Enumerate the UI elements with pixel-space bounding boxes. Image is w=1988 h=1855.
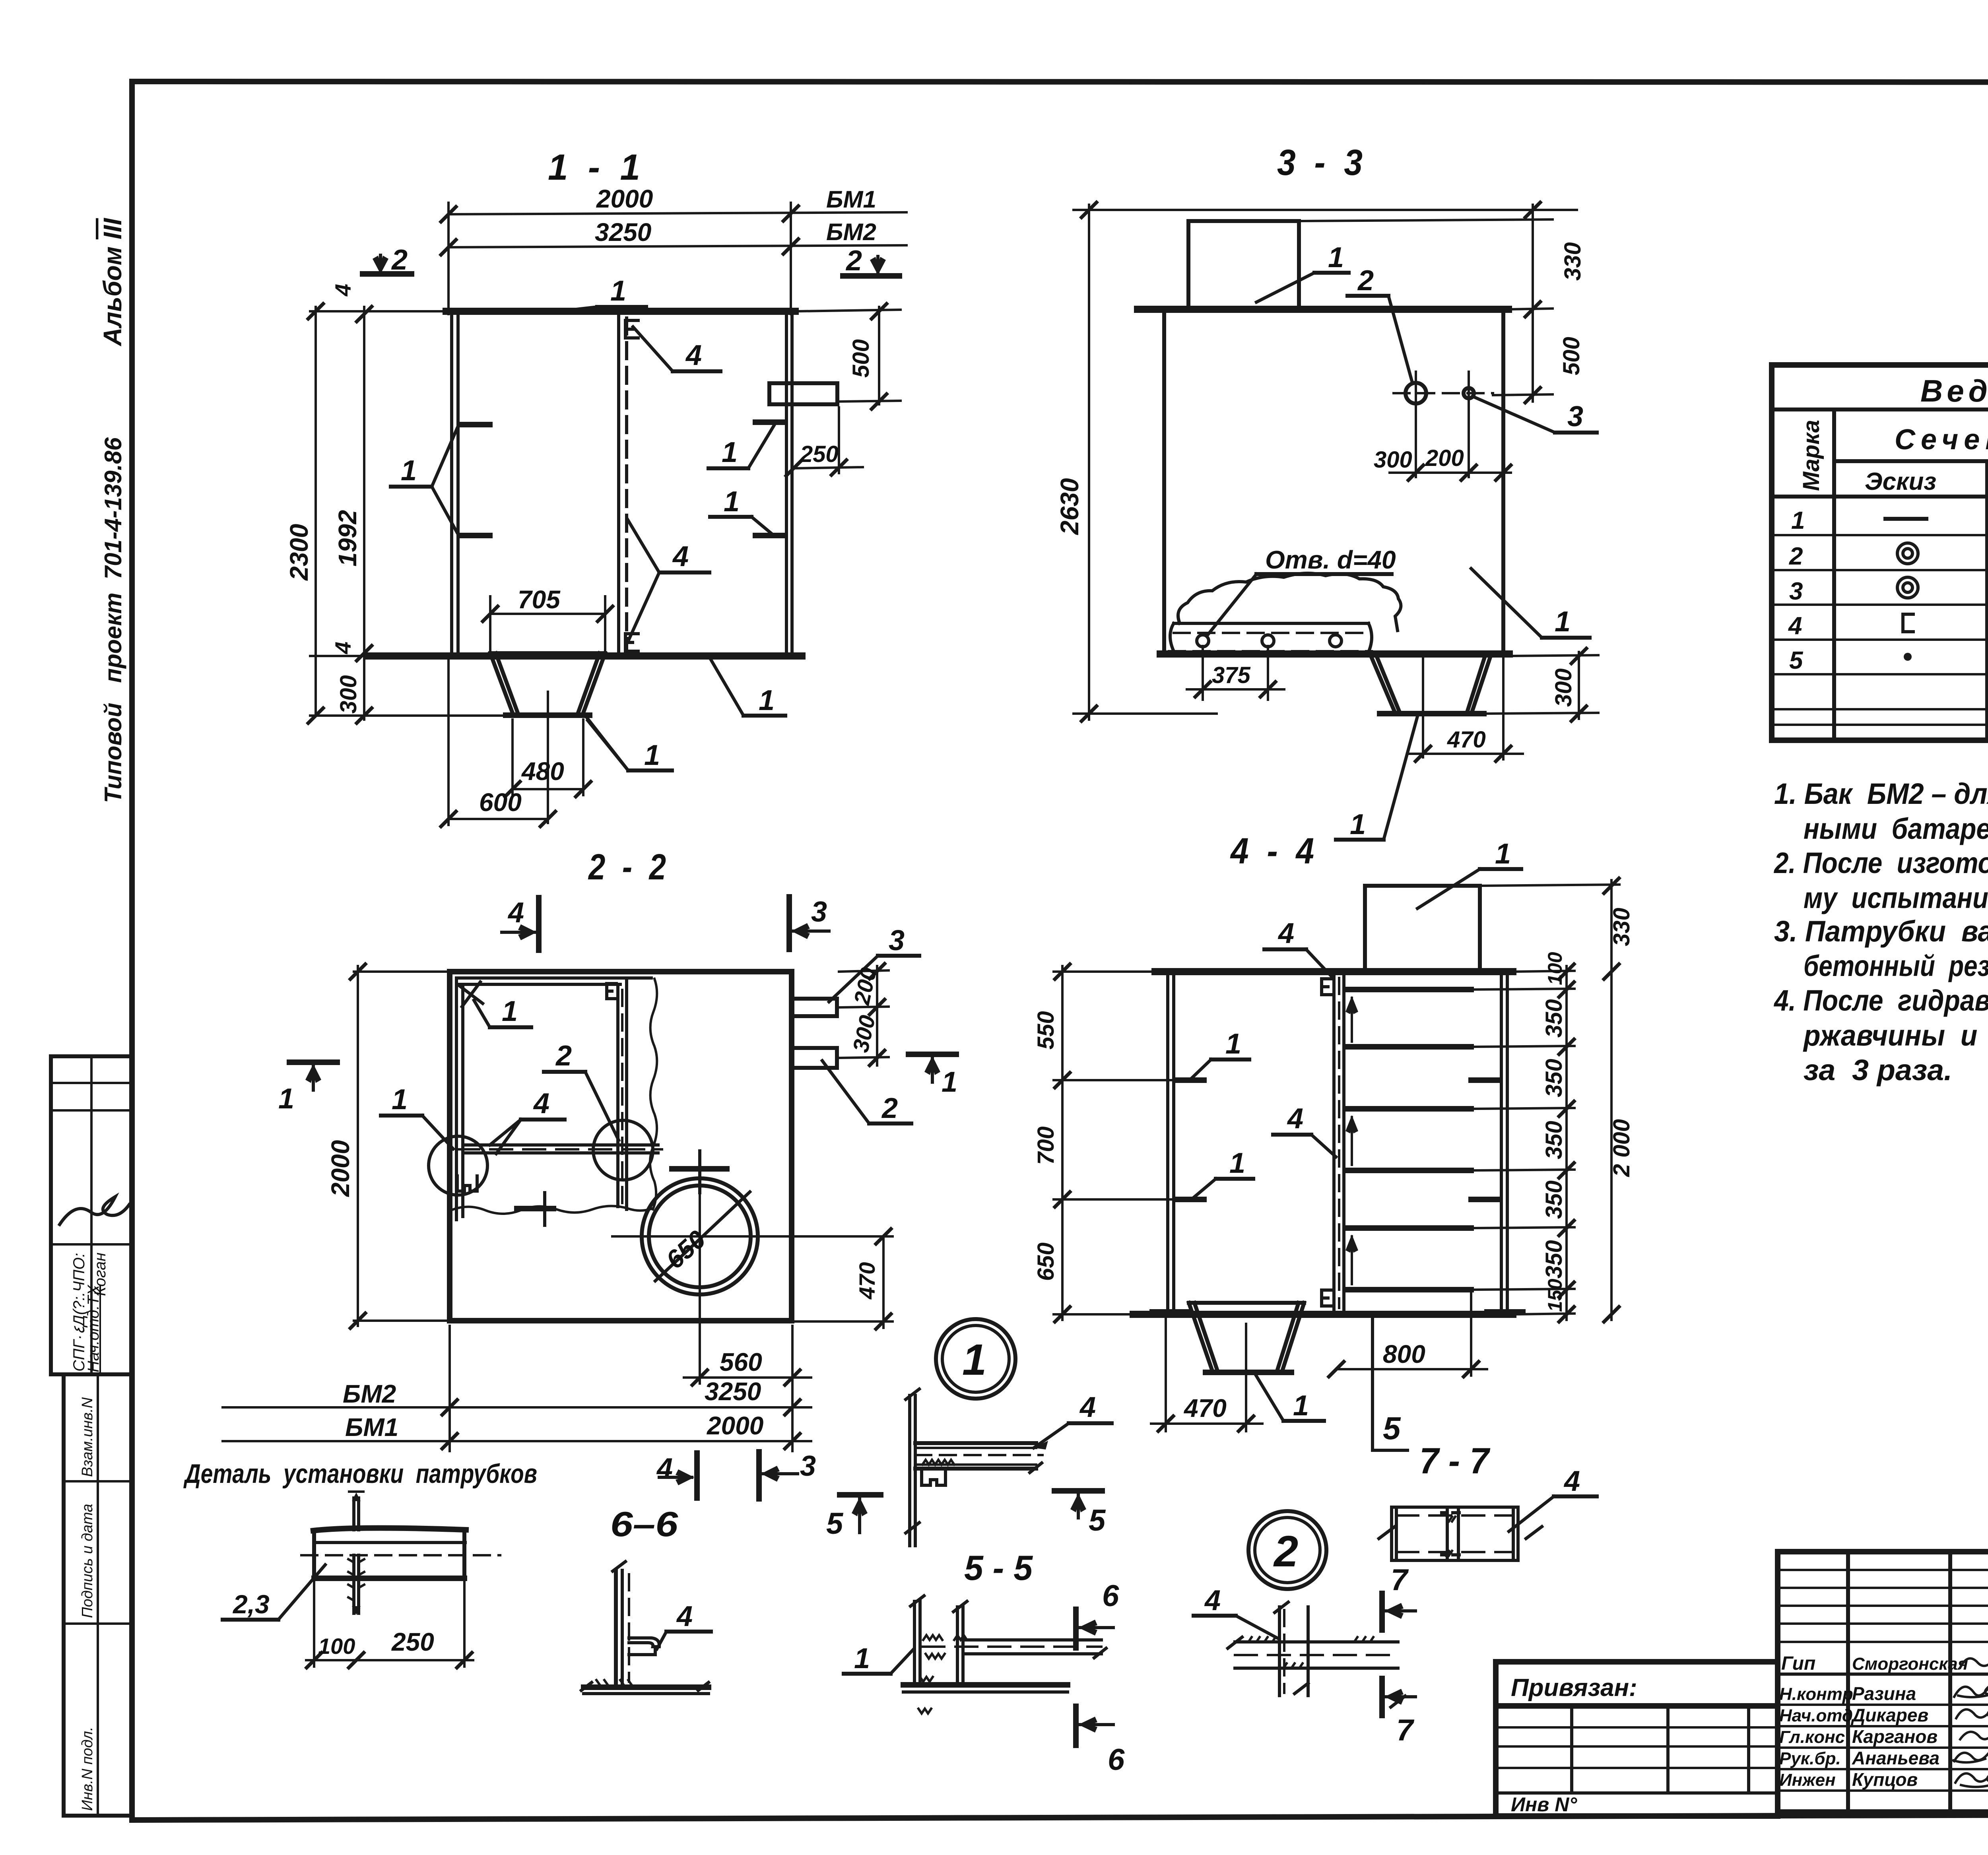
svg-text:му испытанию, течи не допу: му испытанию, течи не допускать. <box>1804 881 1988 914</box>
svg-text:1. Бак БМ2 – для варианта х: 1. Бак БМ2 – для варианта холодильника с… <box>1774 777 1988 810</box>
mound holes d=40 <box>1197 635 1209 647</box>
bottom extension line <box>1074 712 1217 715</box>
svg-text:1: 1 <box>1555 606 1571 638</box>
svg-text:300: 300 <box>1551 668 1576 707</box>
svg-text:3: 3 <box>1567 401 1583 433</box>
svg-text:600: 600 <box>479 788 522 817</box>
mound band bottom edge <box>1170 623 1372 652</box>
svg-text:330: 330 <box>1560 242 1586 281</box>
left wall footing <box>1152 1309 1190 1315</box>
svg-text:800: 800 <box>1383 1340 1425 1368</box>
dim 330 right <box>1532 205 1534 314</box>
vertical member <box>1278 1607 1281 1696</box>
svg-text:4: 4 <box>1277 918 1294 949</box>
svg-text:705: 705 <box>518 585 561 614</box>
svg-text:4: 4 <box>1788 612 1802 640</box>
svg-text:350: 350 <box>1541 1121 1567 1159</box>
5-5 base plate <box>903 1682 1068 1688</box>
svg-text:4: 4 <box>672 541 689 572</box>
dim 500 right <box>878 307 880 404</box>
bracket weld teeth <box>922 1460 954 1465</box>
svg-text:Инв N°: Инв N° <box>1511 1793 1577 1816</box>
right wall tab lower <box>755 533 785 538</box>
svg-text:Гл.конс: Гл.конс <box>1779 1727 1845 1747</box>
svg-text:Альбом III: Альбом III <box>98 218 127 347</box>
detail circle callout left <box>429 1136 487 1195</box>
partition top clip <box>625 320 638 338</box>
svg-text:7 - 7: 7 - 7 <box>1419 1441 1491 1481</box>
header texts <box>1798 420 1824 491</box>
section mark 1 right <box>909 1052 956 1057</box>
ladder rungs <box>1348 987 1471 992</box>
svg-text:500: 500 <box>848 339 874 378</box>
mound dashed lower <box>1169 650 1372 652</box>
funnel 1-1 bottom plate <box>506 712 590 718</box>
svg-text:470: 470 <box>1183 1394 1227 1422</box>
funnel support bottom plate <box>1380 711 1484 716</box>
svg-text:4: 4 <box>533 1088 549 1120</box>
svg-text:2: 2 <box>881 1092 898 1124</box>
tank 3-3 right wall <box>1501 313 1505 654</box>
svg-text:ржавчины и окрасить внутри: ржавчины и окрасить внутри эмалью ХС717Т… <box>1803 1019 1988 1052</box>
6-6 weld ticks <box>596 1680 632 1686</box>
svg-text:1: 1 <box>759 685 775 716</box>
svg-text:ными батареями.: ными батареями. <box>1804 812 1988 845</box>
left margin rotated label: Альбом III <box>98 218 127 347</box>
funnel support left leg <box>1371 656 1400 712</box>
svg-text:480: 480 <box>521 757 564 786</box>
svg-text:Карганов: Карганов <box>1852 1726 1938 1747</box>
left signatures panel verticals <box>1846 1552 1850 1812</box>
section mark 5 up-right <box>1054 1488 1102 1494</box>
svg-text:3: 3 <box>889 925 905 957</box>
svg-text:560: 560 <box>720 1348 762 1376</box>
rotated text Взам.инв.N <box>79 1397 96 1477</box>
svg-text:1: 1 <box>401 455 417 487</box>
svg-text:1: 1 <box>644 739 660 771</box>
svg-text:6: 6 <box>1108 1743 1125 1777</box>
right wall footing <box>1487 1309 1523 1315</box>
patrubok stub right wall <box>769 383 837 404</box>
svg-text:Разина: Разина <box>1852 1683 1916 1704</box>
svg-text:3250: 3250 <box>705 1377 761 1406</box>
left margin signature scribble <box>60 1197 129 1224</box>
6-6 side clip <box>629 1638 659 1655</box>
dim extension lines top <box>447 203 450 314</box>
left dims extension lines <box>1054 970 1153 973</box>
dim 2300 vertical <box>315 307 317 716</box>
svg-text:4. После гидравлического исп: 4. После гидравлического испытания бак о… <box>1773 984 1988 1017</box>
svg-text:1: 1 <box>1229 1147 1245 1179</box>
svg-text:2000: 2000 <box>326 1140 355 1197</box>
svg-text:Коган: Коган <box>91 1253 109 1296</box>
funnel 4-4 center line <box>1245 1324 1247 1431</box>
dim 800 <box>1470 1294 1472 1376</box>
top extension line <box>1074 209 1577 211</box>
svg-text:2: 2 <box>845 245 862 277</box>
left wall stub upper <box>1175 1077 1204 1083</box>
svg-text:2 000: 2 000 <box>1609 1119 1635 1177</box>
svg-text:4: 4 <box>507 897 524 929</box>
dim 480 <box>513 788 583 790</box>
sheet frame bottom <box>132 1814 1988 1820</box>
svg-text:350: 350 <box>1541 1059 1567 1097</box>
svg-text:1 - 1: 1 - 1 <box>548 147 640 188</box>
tank 3-3 bottom plate <box>1160 650 1509 658</box>
svg-text:5: 5 <box>826 1507 844 1541</box>
dim 705 <box>490 613 605 615</box>
svg-text:Привязан:: Привязан: <box>1511 1674 1637 1702</box>
mound band dashed <box>1174 632 1369 634</box>
svg-text:2 - 2: 2 - 2 <box>588 847 666 887</box>
rotated text Согласовано <box>70 1253 88 1372</box>
svg-text:4: 4 <box>656 1453 673 1484</box>
svg-text:4 - 4: 4 - 4 <box>1230 831 1314 871</box>
right wall stub upper <box>1471 1077 1500 1083</box>
right wall 4-4 <box>1500 974 1503 1312</box>
right wall tab upper <box>755 419 785 425</box>
funnel 4-4 top edge <box>1189 1301 1304 1305</box>
center dash line through holes <box>1394 392 1493 394</box>
5-5 second upright <box>956 1607 959 1684</box>
extension lines horizontal <box>310 310 447 312</box>
svg-text:300: 300 <box>1374 447 1412 473</box>
svg-text:375: 375 <box>1212 662 1251 688</box>
6-6 base plate <box>584 1684 709 1690</box>
svg-text:4: 4 <box>330 284 355 297</box>
rung arrows vertical <box>1351 998 1353 1042</box>
tank 1-1 left wall <box>450 313 453 656</box>
dim 2000 line (BM1) <box>448 212 907 214</box>
patrubok pin top <box>352 1498 355 1530</box>
section 5 line bottom <box>1373 1318 1408 1450</box>
hole circle 650 <box>642 1178 758 1294</box>
center cross below <box>517 1206 553 1211</box>
svg-text:Марка: Марка <box>1798 420 1824 491</box>
svg-text:Нач.отд.: Нач.отд. <box>1779 1706 1858 1725</box>
5-5 weld teeth <box>918 1635 967 1713</box>
bracket detail wall <box>908 1395 911 1546</box>
funnel 1-1 top edge <box>490 651 605 655</box>
svg-text:330: 330 <box>1609 908 1635 946</box>
weld teeth 7-7 member <box>1446 1517 1455 1556</box>
svg-text:4: 4 <box>330 642 355 654</box>
svg-text:4: 4 <box>1079 1391 1096 1423</box>
center dash line <box>301 1554 500 1556</box>
left margin stamp table upper <box>51 1056 132 1374</box>
right wall stub lower <box>1471 1197 1500 1202</box>
dim 600 <box>448 818 548 820</box>
thin top rows <box>1778 1569 1988 1571</box>
dim 2000 left vertical <box>357 966 359 1326</box>
dim 100 250 <box>313 1582 315 1667</box>
bracket channel below <box>922 1469 945 1485</box>
svg-text:350: 350 <box>1541 1180 1567 1219</box>
svg-text:6: 6 <box>1102 1579 1119 1613</box>
svg-text:Инв.N подл.: Инв.N подл. <box>79 1727 96 1811</box>
detail circle callout right <box>593 1120 653 1180</box>
svg-text:1: 1 <box>854 1643 870 1675</box>
svg-text:1: 1 <box>1293 1390 1309 1422</box>
dim 500 right <box>1532 309 1534 402</box>
tank 1-1 top lid <box>446 308 795 315</box>
patrubok plate top flange <box>313 1528 466 1531</box>
funnel 4-4 right side <box>1278 1303 1304 1370</box>
col line Marka <box>1832 409 1836 740</box>
left wall tab upper <box>460 422 490 427</box>
svg-text:Взам.инв.N: Взам.инв.N <box>79 1397 96 1477</box>
corner x mark <box>460 982 483 1007</box>
svg-text:1992: 1992 <box>333 510 362 567</box>
patrubok pin bottom <box>352 1555 355 1613</box>
dim 2630 <box>1088 205 1090 720</box>
end break slashes <box>1379 1527 1542 1539</box>
svg-text:1: 1 <box>610 275 626 307</box>
svg-text:Н.контр: Н.контр <box>1779 1684 1853 1704</box>
svg-text:550: 550 <box>1033 1011 1059 1050</box>
snow mound wavy top <box>1178 573 1401 631</box>
table title row line <box>1772 407 1988 411</box>
svg-text:5: 5 <box>1383 1411 1401 1446</box>
svg-text:Гип: Гип <box>1781 1653 1815 1674</box>
svg-text:2630: 2630 <box>1055 478 1084 535</box>
svg-text:650: 650 <box>1033 1242 1059 1281</box>
svg-text:1: 1 <box>962 1335 986 1384</box>
svg-text:Эскиз: Эскиз <box>1865 468 1936 495</box>
sheet frame left <box>129 81 135 1820</box>
left margin stamp table lower <box>64 1374 132 1816</box>
dim 470 (4-4) <box>1165 1316 1167 1431</box>
svg-text:5: 5 <box>1089 1504 1106 1537</box>
dim 470 (3-3) <box>1502 658 1505 759</box>
svg-text:за 3 раза.: за 3 раза. <box>1804 1054 1952 1087</box>
hole pos.3 small circle <box>1464 388 1474 398</box>
svg-text:Инжен: Инжен <box>1779 1770 1836 1790</box>
svg-text:2. После изготовления бак п: 2. После изготовления бак подвергнуть ги… <box>1773 846 1988 879</box>
weld teeth cross <box>1248 1637 1373 1668</box>
svg-text:БМ1: БМ1 <box>345 1413 398 1442</box>
branch pipe box <box>1188 221 1299 309</box>
svg-text:1: 1 <box>392 1084 408 1116</box>
sechenie sub split <box>1834 459 1988 463</box>
patrubok plate body <box>312 1531 316 1578</box>
svg-text:7: 7 <box>1396 1713 1415 1747</box>
section mark 1 left <box>289 1059 337 1065</box>
partition top clip <box>607 984 616 999</box>
horizontal channel member (double+dash) <box>463 1143 658 1147</box>
svg-text:1: 1 <box>278 1083 294 1115</box>
svg-text:350: 350 <box>1541 999 1567 1038</box>
svg-text:Типовой проект 701-4-139.86: Типовой проект 701-4-139.86 <box>100 437 126 803</box>
tank 1-1 bottom plate <box>367 652 802 660</box>
svg-text:2300: 2300 <box>285 524 313 581</box>
svg-text:1: 1 <box>1328 242 1344 274</box>
inner wall left (double) <box>455 978 458 1220</box>
svg-text:470: 470 <box>1447 727 1486 753</box>
section mark 6 upper <box>1073 1609 1079 1648</box>
svg-text:150: 150 <box>1544 1279 1566 1312</box>
svg-text:2: 2 <box>555 1040 572 1072</box>
svg-text:5: 5 <box>1789 647 1804 674</box>
nozzle stub lower right <box>792 1048 837 1068</box>
left dim line <box>1061 966 1064 1320</box>
svg-text:1: 1 <box>502 995 518 1027</box>
svg-text:3: 3 <box>800 1450 816 1482</box>
mound band top line <box>1174 622 1369 625</box>
header bottom line <box>1772 495 1988 499</box>
svg-text:300: 300 <box>336 675 361 714</box>
svg-text:2,3: 2,3 <box>232 1589 270 1619</box>
svg-text:4: 4 <box>1204 1585 1221 1616</box>
svg-text:3250: 3250 <box>595 218 651 246</box>
svg-text:4: 4 <box>1287 1103 1303 1135</box>
partition top clip <box>1322 979 1333 995</box>
svg-text:250: 250 <box>391 1628 434 1656</box>
svg-text:Отв. d=40: Отв. d=40 <box>1265 545 1396 574</box>
left margin rotated label: Типовой проект 701-4-139.86 <box>100 437 126 803</box>
svg-text:2: 2 <box>391 244 408 276</box>
nozzle stub upper right <box>792 999 837 1016</box>
section mark 2 left <box>363 271 412 277</box>
svg-text:БМ2: БМ2 <box>343 1380 396 1408</box>
dim 300 bottom right <box>1578 652 1580 719</box>
wavy break bottom of inner area <box>449 1206 652 1214</box>
svg-text:3 - 3: 3 - 3 <box>1277 142 1363 183</box>
dim 250 right <box>794 467 863 468</box>
svg-text:5 - 5: 5 - 5 <box>964 1548 1033 1587</box>
svg-text:1: 1 <box>1791 507 1805 534</box>
section mark 7 lower <box>1379 1678 1385 1715</box>
svg-text:БМ1: БМ1 <box>826 186 876 213</box>
svg-text:4: 4 <box>676 1601 693 1632</box>
svg-text:700: 700 <box>1033 1126 1059 1165</box>
inner wall top (double) <box>456 976 651 980</box>
svg-text:3: 3 <box>1789 578 1803 605</box>
left wall 4-4 <box>1166 974 1169 1312</box>
hole extension verticals <box>1415 372 1417 477</box>
dim 300 / 200 under holes <box>1390 472 1511 474</box>
rotated text Нач.отд.ТХ <box>85 1285 102 1372</box>
svg-text:БМ2: БМ2 <box>826 219 876 245</box>
tank 4-4 top lid <box>1155 968 1513 975</box>
dim 3250 line (BM2) <box>448 245 907 247</box>
tank 4-4 bottom plate <box>1133 1311 1513 1318</box>
svg-text:2: 2 <box>1357 265 1374 297</box>
sheet frame top <box>132 81 1988 82</box>
svg-text:350: 350 <box>1541 1240 1567 1279</box>
table outer border <box>1772 365 1988 740</box>
extension verticals bottom <box>448 1326 451 1451</box>
dim 300 vertical <box>355 707 373 724</box>
bracket shelf <box>915 1441 1036 1445</box>
section mark 6 lower <box>1073 1706 1079 1745</box>
svg-text:Сморгонская: Сморгонская <box>1852 1654 1968 1674</box>
circle center lines <box>672 1166 727 1172</box>
tank 1-1 middle partition <box>617 314 620 654</box>
horizontal member <box>1235 1640 1398 1643</box>
svg-text:Деталь установки патрубков: Деталь установки патрубков <box>183 1459 537 1489</box>
svg-text:Ведомость элементов: Ведомость элементов <box>1920 373 1988 408</box>
support center line <box>1422 652 1424 757</box>
rotated text Коган <box>91 1253 109 1296</box>
row lines names <box>1778 1673 1988 1676</box>
svg-text:2000: 2000 <box>707 1411 763 1440</box>
svg-text:1: 1 <box>1225 1028 1241 1060</box>
dim 1992 vertical <box>363 307 365 720</box>
svg-text:бетонный резервуар.: бетонный резервуар. <box>1804 949 1988 982</box>
privyazan sub-table <box>1496 1706 1778 1816</box>
svg-text:100: 100 <box>1544 952 1566 985</box>
rotated text Инв.N подл. <box>79 1727 96 1811</box>
channel clip left bottom <box>457 1176 477 1191</box>
svg-text:3: 3 <box>811 896 827 928</box>
circle diameter line <box>655 1192 750 1281</box>
svg-text:2000: 2000 <box>596 184 653 213</box>
overall right dim line <box>1610 880 1613 1320</box>
tank 3-3 top lid <box>1138 306 1508 313</box>
svg-text:Купцов: Купцов <box>1852 1769 1918 1790</box>
tank 2-2 outer box <box>450 972 792 1321</box>
5-5 left upright <box>913 1601 916 1684</box>
svg-text:4: 4 <box>1563 1465 1580 1497</box>
svg-text:7: 7 <box>1391 1563 1409 1597</box>
svg-text:1: 1 <box>942 1066 957 1098</box>
data row lines <box>1772 534 1988 536</box>
svg-text:Рук.бр.: Рук.бр. <box>1779 1749 1841 1768</box>
left wall stub lower <box>1175 1197 1204 1202</box>
col line Eskiz/Poz <box>1985 461 1988 740</box>
section mark 2 right <box>843 273 899 279</box>
svg-text:Сечение: Сечение <box>1895 424 1988 456</box>
svg-text:4: 4 <box>685 340 702 371</box>
left wall tab lower <box>460 533 490 538</box>
tank 3-3 left wall <box>1162 313 1166 654</box>
dim 560 bottom <box>699 1300 701 1383</box>
svg-text:Дикарев: Дикарев <box>1850 1705 1928 1725</box>
tank 1-1 right wall <box>785 313 788 656</box>
funnel 4-4 left side <box>1189 1303 1217 1370</box>
6-6 channel vertical <box>614 1570 618 1686</box>
right rung dim line <box>1565 966 1568 1320</box>
partition bottom clip <box>1322 1290 1333 1306</box>
svg-text:6–6: 6–6 <box>610 1504 678 1544</box>
funnel support right leg <box>1467 656 1491 712</box>
svg-text:Подпись и дата: Подпись и дата <box>79 1504 96 1618</box>
svg-text:250: 250 <box>800 441 839 467</box>
svg-text:Ананьева: Ананьева <box>1852 1748 1939 1768</box>
title block outer <box>1778 1552 1988 1812</box>
svg-text:200: 200 <box>1425 445 1464 471</box>
rotated text Подпись и дата <box>79 1504 96 1618</box>
partition 4-4 <box>1332 974 1336 1312</box>
funnel 4-4 bottom plate <box>1206 1370 1291 1375</box>
svg-text:1: 1 <box>724 486 740 518</box>
dim 300 right <box>868 1049 886 1067</box>
5-5 horizontal member <box>963 1638 1101 1642</box>
funnel 1-1 left side <box>490 653 517 713</box>
svg-text:3. Патрубки варить после ус: 3. Патрубки варить после установки бака … <box>1774 915 1988 948</box>
inner partition vertical (double+dash) <box>616 984 619 1207</box>
section mark 5 up-left <box>840 1492 881 1498</box>
dim 375 <box>1202 646 1204 700</box>
funnel 1-1 right side <box>579 653 605 713</box>
svg-text:1: 1 <box>1495 838 1511 870</box>
middle channel <box>1442 1507 1459 1560</box>
svg-text:1: 1 <box>722 437 738 468</box>
dim 200 right <box>839 970 889 972</box>
svg-text:500: 500 <box>1559 337 1584 375</box>
svg-text:2: 2 <box>1789 543 1803 570</box>
